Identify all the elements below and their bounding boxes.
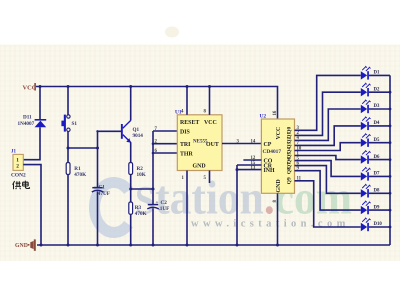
svg-text:10K: 10K xyxy=(137,172,146,178)
svg-text:GND: GND xyxy=(15,243,28,249)
svg-text:VCC: VCC xyxy=(204,120,217,126)
wire R1 to GND xyxy=(67,175,70,247)
rotated pin label Q0 xyxy=(287,127,293,134)
LED D10 xyxy=(361,218,383,232)
wire J1 pin2 to GND xyxy=(23,165,42,247)
rotated pin label Q7 xyxy=(287,162,293,169)
svg-text:C1: C1 xyxy=(99,185,106,191)
svg-text:14: 14 xyxy=(251,140,256,145)
svg-text:CP: CP xyxy=(264,142,272,148)
LED D4 xyxy=(361,117,380,131)
svg-text:1N4007: 1N4007 xyxy=(18,121,35,127)
rotated pin label Q9 xyxy=(287,177,293,184)
wire TRI pin 2 xyxy=(153,143,177,145)
svg-text:J1: J1 xyxy=(11,150,17,155)
wire Q1 emitter to R2 xyxy=(130,142,132,162)
svg-text:S1: S1 xyxy=(72,121,78,127)
wire S1 junction down to R1 xyxy=(67,148,69,163)
rotated pin label Q5 xyxy=(287,152,293,159)
wire junction to R1 and across to C1 column xyxy=(67,147,100,150)
wire OUT pin3 to CP pin14 xyxy=(222,140,261,145)
pin 1 GND wire to ground rail xyxy=(182,171,189,247)
pin 2 wire Q1 to D2 xyxy=(295,92,361,136)
pin 2 number xyxy=(155,140,158,145)
svg-text:OUT: OUT xyxy=(206,142,219,148)
svg-text:11: 11 xyxy=(297,177,302,182)
pin 12 CO stub xyxy=(243,156,261,161)
LED D9 xyxy=(361,201,380,215)
wire CR/INH to GND xyxy=(236,165,239,247)
svg-text:CON2: CON2 xyxy=(11,172,26,178)
pin 6 wire Q7 to D8 xyxy=(295,161,361,193)
svg-text:Q8: Q8 xyxy=(287,167,293,174)
wire GND rail xyxy=(37,244,390,246)
wire C1 to GND xyxy=(96,191,99,246)
svg-text:RESET: RESET xyxy=(180,120,199,126)
svg-text:www.icstation.com: www.icstation.com xyxy=(191,219,350,230)
LED D3 xyxy=(361,100,380,114)
wire R3 to GND xyxy=(129,214,132,246)
wire D1 cathode to bus xyxy=(369,74,390,76)
svg-text:16: 16 xyxy=(273,110,278,115)
pin 15 CR wire xyxy=(237,161,261,166)
pin 5 wire Q6 to D7 xyxy=(295,156,361,176)
svg-text:9014: 9014 xyxy=(133,133,144,139)
pin 5 CV stub xyxy=(204,171,210,184)
wire VCC to Q1 collector xyxy=(129,85,132,120)
svg-text:Q9: Q9 xyxy=(287,177,293,184)
rotated pin label Q6 xyxy=(287,157,293,164)
pin 13 INH wire xyxy=(236,166,262,171)
svg-text:GND: GND xyxy=(193,164,206,170)
node VCC power port xyxy=(23,83,37,91)
wire D6 cathode to bus xyxy=(369,158,392,161)
pin 1 wire Q5 to D6 xyxy=(295,151,361,159)
svg-text:TRI: TRI xyxy=(180,142,191,148)
svg-text:.47UF: .47UF xyxy=(97,191,110,197)
LED D8 xyxy=(361,184,380,198)
svg-text:VCC: VCC xyxy=(276,127,282,140)
wire R2 to R3 node xyxy=(129,175,132,203)
svg-text:2: 2 xyxy=(16,163,19,169)
faint mark xyxy=(165,27,179,38)
op-amp U1 NE555 timer xyxy=(175,109,222,170)
capacitor C2 .1UF electrolytic xyxy=(147,200,169,212)
wire D2 cathode to bus xyxy=(369,91,392,94)
svg-text:CD4017: CD4017 xyxy=(263,149,282,155)
wire D5 cathode to bus xyxy=(369,141,392,144)
pin 11 wire Q9 to D10 xyxy=(295,177,361,227)
wire D7 cathode to bus xyxy=(369,175,392,178)
wire S1 to junction node xyxy=(67,132,69,149)
ground symbol GND power port xyxy=(15,239,36,250)
svg-text:470K: 470K xyxy=(135,211,147,217)
pin 6 number xyxy=(155,149,158,154)
pin 10 wire Q4 to D5 xyxy=(295,143,361,152)
wire DIS/TRI/THR tie line xyxy=(152,131,155,204)
wire THR pin 6 xyxy=(153,152,177,154)
LED D2 xyxy=(361,83,380,97)
wire C2 to GND xyxy=(152,208,155,246)
wire LED cathode bus to GND rail xyxy=(389,75,391,245)
wire VCC to S1 xyxy=(67,85,70,115)
wire D11 anode to J1 pin1 xyxy=(23,127,40,160)
pin 7 number xyxy=(155,127,158,132)
svg-text:13: 13 xyxy=(251,166,256,171)
rotated pin label Q1 xyxy=(287,132,293,139)
label 供电 (power supply) chinese text xyxy=(13,181,30,190)
svg-text:470K: 470K xyxy=(74,172,86,178)
LED D5 xyxy=(361,133,380,147)
wire D4 cathode to bus xyxy=(369,125,392,128)
svg-text:NE555: NE555 xyxy=(193,139,208,144)
diode D11 1N4007 xyxy=(18,114,47,127)
LED D6 xyxy=(361,150,380,164)
capacitor C1 .47UF electrolytic xyxy=(92,185,110,197)
connector J1 CON2 xyxy=(11,150,26,179)
rotated pin label Q4 xyxy=(287,147,293,154)
rotated pin label Q8 xyxy=(287,167,293,174)
svg-text:THR: THR xyxy=(180,152,194,158)
pin 3 wire Q0 to D1 xyxy=(295,75,361,131)
pin 4 wire Q2 to D3 xyxy=(295,109,361,141)
transistor Q1 9014 NPN xyxy=(121,120,143,142)
svg-text:U2: U2 xyxy=(260,114,267,120)
LED D1 xyxy=(361,66,380,80)
IC U2 CD4017 decade counter xyxy=(260,114,295,194)
pin 8 VCC wire xyxy=(204,85,212,115)
rotated pin label Q2 xyxy=(287,137,293,144)
LED D7 xyxy=(361,167,380,181)
pin 8 GND wire xyxy=(273,193,279,246)
wire VCC to D11 cathode xyxy=(39,85,42,119)
watermark icstation logo xyxy=(94,172,352,233)
pin 9 wire Q8 to D9 xyxy=(295,167,361,211)
wire D8 cathode to bus xyxy=(369,192,392,195)
switch S1 push button xyxy=(61,115,77,132)
resistor R2 10K xyxy=(129,163,146,178)
wire VCC rail xyxy=(36,87,278,120)
svg-text:DIS: DIS xyxy=(180,130,191,136)
pin 16 VCC wire xyxy=(273,110,278,115)
svg-text:D11: D11 xyxy=(23,114,32,120)
wire node to C2 column xyxy=(131,188,155,191)
svg-text:INH: INH xyxy=(264,168,276,174)
resistor R1 470K xyxy=(66,163,86,178)
wire D9 cathode to bus xyxy=(369,209,392,212)
wire Q1 base net vertical to C1 xyxy=(96,130,98,187)
pin 7 wire Q3 to D4 xyxy=(295,126,361,146)
wire D3 cathode to bus xyxy=(369,108,392,111)
svg-text:GND: GND xyxy=(276,179,282,192)
wire D10 cathode to bus xyxy=(369,226,392,229)
wire DIS pin 7 xyxy=(153,130,177,132)
rotated pin label Q3 xyxy=(287,142,293,149)
resistor R3 470K xyxy=(129,202,147,217)
pin 4 RESET wire xyxy=(181,85,189,115)
wire Q1 base horizontal xyxy=(98,130,122,132)
svg-text:.1UF: .1UF xyxy=(159,206,170,212)
